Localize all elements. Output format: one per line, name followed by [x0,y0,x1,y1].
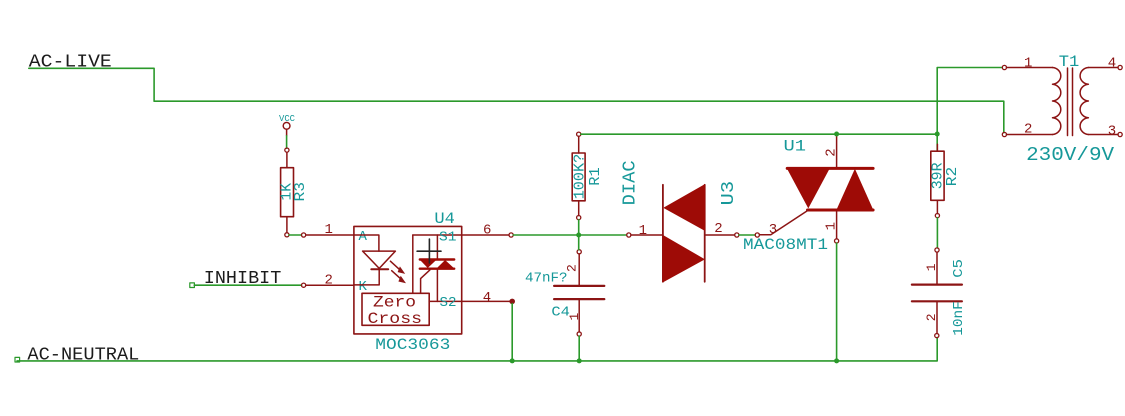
wire U3 pin 2 to U1 pin 3 [739,234,755,236]
wire C4 bottom to neutral [578,336,580,361]
svg-text:2: 2 [565,264,580,272]
capacitor C5 [912,248,967,338]
svg-text:U1: U1 [784,138,807,156]
wire R1 bottom to net [578,220,580,235]
svg-text:3: 3 [1108,123,1116,139]
triac U1 [743,134,873,254]
svg-text:C5: C5 [951,259,967,278]
wire R3 to U4 pin 1 [289,234,302,236]
svg-text:AC-LIVE: AC-LIVE [29,53,112,73]
wire AC-LIVE from label to T1 pin 2 [29,68,1004,132]
svg-text:Cross: Cross [368,310,423,328]
svg-text:100K?: 100K? [573,154,589,200]
pin 2 of T1 [1002,122,1052,138]
diac U3 [620,160,739,281]
zero-cross box inside U4 [362,293,429,328]
wire top net R1 to T1 branch [581,133,937,135]
LED arrows inside U4 [390,261,406,283]
svg-text:K: K [359,279,368,295]
svg-text:DIAC: DIAC [620,160,641,205]
svg-text:AC-NEUTRAL: AC-NEUTRAL [27,346,139,366]
wire VCC to R3 [286,136,288,148]
resistor R1 [572,132,604,220]
svg-text:1: 1 [924,263,939,271]
node AC-NEUTRAL wire end square [15,357,20,362]
junction pin4 wire at neutral [510,358,515,363]
svg-text:1: 1 [567,313,582,321]
wire U1 pin 1 down to neutral [836,243,838,361]
svg-text:2: 2 [1024,122,1032,138]
junction C4 wire at neutral [577,358,582,363]
resistor R3 [280,148,309,237]
node INHIBIT label [204,269,282,289]
svg-text:T1: T1 [1059,53,1080,71]
svg-text:R1: R1 [588,167,604,186]
node INHIBIT wire end square [190,283,195,288]
svg-text:A: A [359,229,368,245]
svg-text:1: 1 [639,223,647,239]
junction U1 wire at neutral [834,358,839,363]
junction T1 branch at top net [935,132,940,137]
svg-text:2: 2 [325,272,333,288]
svg-text:2: 2 [924,313,939,321]
svg-text:4: 4 [483,290,491,306]
node AC-LIVE label [29,53,112,73]
pin 2 of U3 [705,221,739,237]
svg-text:2: 2 [824,148,840,156]
pin 1 A of U4 [302,222,368,245]
svg-text:S2: S2 [440,295,457,311]
svg-text:2: 2 [714,221,722,237]
pin 4 of T1 [1088,56,1122,72]
junction U1 pin 2 at top net [834,132,839,137]
svg-text:4: 4 [1108,56,1116,72]
resistor R2 [931,144,961,217]
svg-text:MOC3063: MOC3063 [375,336,450,354]
svg-text:Zero: Zero [373,293,416,311]
svg-text:MAC08MT1: MAC08MT1 [743,236,828,254]
svg-text:10nF: 10nF [951,301,967,336]
pin 6 S1 of U4 [413,222,513,245]
wire U4 pin 4 down to neutral [511,304,513,361]
pin 4 S2 of U4 [429,290,514,311]
pin 1 of U3 [627,223,663,239]
junction at R1 bottom on net [576,233,581,238]
op-to-coupler U4 outer box [354,210,462,354]
svg-text:VCC: VCC [279,113,295,124]
transformer T1 [1026,53,1115,166]
capacitor C4 [525,250,604,336]
wire AC-NEUTRAL bottom rail up to C5 [17,337,937,361]
pin 2 K of U4 [302,272,368,294]
node AC-NEUTRAL label [27,346,139,366]
LED inside U4 [354,235,396,285]
wire T1 pin 1 branch down to R2 [937,68,1002,152]
svg-text:230V/9V: 230V/9V [1026,144,1115,166]
power VCC symbol [279,113,295,136]
wire INHIBIT to U4 pin 2 [194,284,301,286]
wire U4 pin 6 to DIAC pin 1 [513,234,627,236]
svg-text:R2: R2 [945,167,961,187]
pin 3 of T1 [1088,123,1122,139]
svg-text:1: 1 [824,222,840,230]
wire net to C4 top [578,237,580,250]
svg-text:S1: S1 [439,229,457,245]
svg-text:R3: R3 [293,182,309,202]
svg-text:U3: U3 [718,181,739,206]
anchor cross inside U4 [417,239,441,263]
svg-text:47nF?: 47nF? [525,270,568,286]
pin 1 of T1 [1002,56,1052,72]
svg-text:1: 1 [325,222,333,238]
svg-text:U4: U4 [434,210,455,228]
photo-triac inside U4 [413,235,454,301]
wire R2 bottom to C5 [936,218,938,248]
svg-text:1: 1 [1024,56,1032,72]
svg-text:6: 6 [483,222,491,238]
